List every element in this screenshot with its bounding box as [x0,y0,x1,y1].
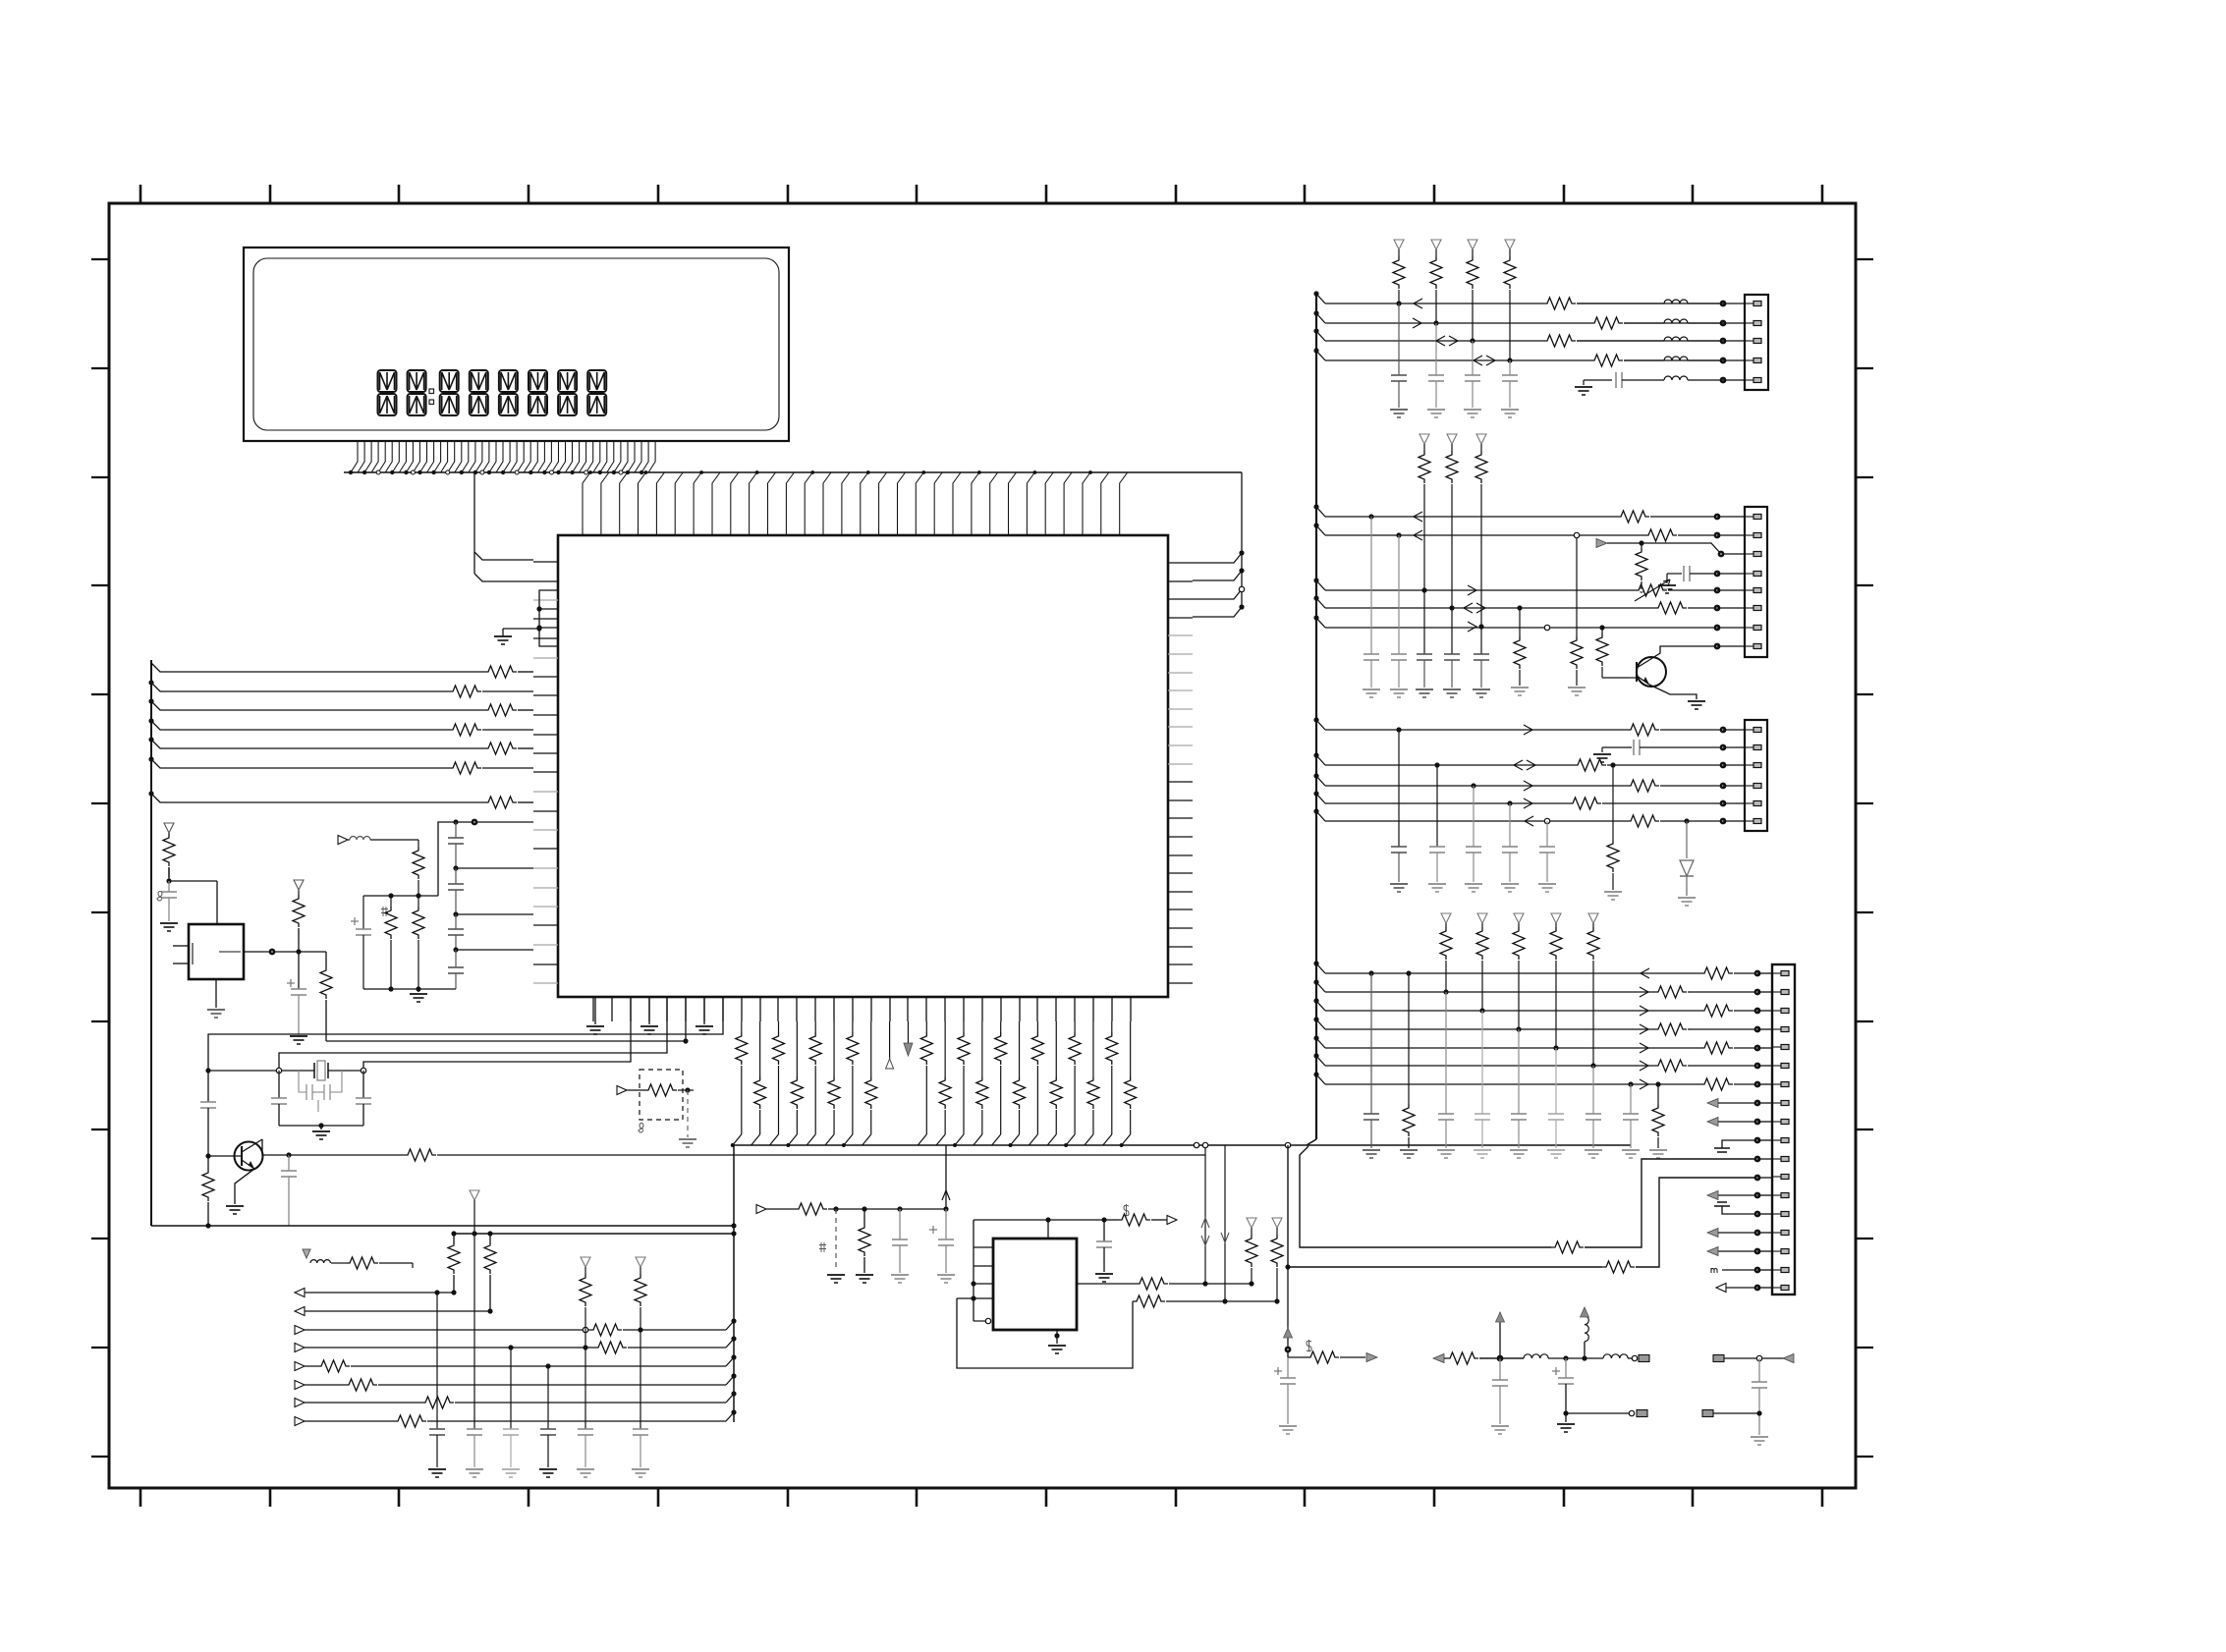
nested wire L1 [208,997,723,1054]
harness wire row 5 [151,740,484,748]
filter capacitor C63 [1449,605,1454,610]
left vertical bus [150,660,152,1226]
J4 input arrow pin16 [1707,1247,1718,1256]
ground G56 [1585,1149,1602,1151]
transistor Q1 [235,1142,263,1171]
chevrons g3r3 [1514,760,1523,770]
wire to test plug B [1566,1412,1635,1414]
ground G20 [1390,409,1408,411]
LCD 14-segment digit 5 [499,370,518,415]
series resistor R95 [1654,1060,1687,1072]
U3 output wire 1 [1077,1283,1136,1285]
connector J4 signal wire 2 [1316,982,1325,992]
wire IC right pin row to bus trunk 2 [1193,571,1242,580]
pad junction 3 [1720,338,1727,345]
resistor R53 with net flag [1124,1204,1129,1216]
chevron g4r3 [1640,1006,1648,1016]
ground G12 [891,1274,909,1276]
U3 top pin wire [1047,1220,1049,1239]
U2 output wire [244,951,326,953]
ferrite bead FB2 [1664,319,1688,323]
series resistor R91 [1654,986,1687,998]
series resistor R70 [1617,511,1649,523]
input flag RC cluster [756,1205,766,1214]
J2 pin 3 [1745,553,1753,555]
pullup resistor R76 [1447,434,1457,444]
series resistor R93 [1654,1023,1687,1035]
connector J3 [1745,720,1767,831]
direction chevron g1r2 [1413,318,1421,328]
series resistor R82 [1574,759,1606,771]
ferrite bead FB1 [1664,300,1688,303]
filter capacitor C50 [1398,303,1400,375]
connector J1 [1745,295,1768,390]
vertical inductor FB11 [1582,1355,1586,1360]
J2 pin 2 [1745,534,1753,536]
Q1 emitter to ground [235,1169,254,1204]
J1 pin 2 [1745,322,1753,324]
U1 left pin stubs [533,562,558,983]
connector J2 wire row1 [1316,507,1325,517]
inductor FB10 [1479,1357,1524,1359]
J4 pin11 long feed wire [1300,1146,1551,1247]
resistor R46 bank column 7 [852,1021,854,1032]
ground G55 [1547,1149,1565,1151]
ferrite bead FB3 [1664,337,1688,341]
base resistor R80 [1599,625,1604,630]
input flag row2 [295,1307,305,1316]
capacitor C24 [207,1054,209,1102]
pullup resistor R133 [1551,913,1561,923]
J4 pin10 ground [1722,1140,1757,1148]
ground G42 [1465,883,1482,885]
J2 pin 5 [1745,589,1753,591]
dashed option resistor R50 [640,1070,683,1120]
capacitor C23 [362,1071,364,1098]
resistor pair R36 [453,1234,455,1241]
capacitor C20 [168,881,170,892]
filter capacitor C82 [1445,992,1447,1114]
ground G6 under U1 [703,997,705,1024]
ground G41 [1428,883,1446,885]
resistor R24 [404,1149,436,1161]
resistor R419 bank column 20 [1092,1021,1094,1076]
filter capacitor C52 [1472,341,1474,375]
resistor R22 [325,952,327,966]
nested wire L4 [363,997,631,1071]
capacitor C40 [897,1206,902,1211]
ladder tap 3 [453,947,458,952]
LCD pin wires to segment bus [351,441,655,472]
nested wire L2 [685,997,687,1041]
resistor R40 bank column 1 [741,1021,743,1032]
LCD 14-segment digit 7 [558,370,577,415]
resistor R47 bank column 8 [870,1021,872,1076]
resistor R51 [795,1203,827,1215]
J4 pin 6 [1772,1065,1781,1067]
segment bus wire [344,471,1242,473]
resistor R35 row8 [394,1420,427,1423]
filter capacitor C74 [1546,821,1548,847]
resistor R30 row3 [589,1329,623,1332]
power flag and filter [303,1249,310,1258]
ground G11 [856,1274,873,1276]
ground G13 [937,1274,955,1276]
U3 left pin rail [973,1220,974,1321]
connector J2 wire row2 [1316,525,1325,535]
resistor pair R37 [489,1234,491,1241]
electrolytic C2A [362,896,364,929]
J4 pin 10 [1772,1139,1781,1141]
filter capacitor C83 [1481,1011,1483,1114]
capacitor C42 [1103,1220,1105,1241]
J4 pin 2 [1772,991,1781,993]
wire to plug TP4 [1713,1412,1759,1414]
direction chevrons g1r4 [1474,356,1482,365]
ground G4 under U1 [594,997,596,1024]
chevrons g2r6 [1464,603,1473,613]
ground G22 [1464,409,1481,411]
ground G32 [1416,688,1433,690]
chevron g2r7 [1468,622,1476,632]
pullup resistor R132 [1514,913,1524,923]
transistor Q2 [1637,657,1666,687]
wire IC right pin row to bus trunk 3 [1193,589,1242,599]
resistor R21 [296,949,301,954]
pullup resistor R131 [1477,913,1487,923]
J4 pin 15 [1772,1232,1781,1234]
pullup R56 [1247,1218,1256,1228]
capacitor ladder C29 [455,950,457,967]
resistor R417 bank column 18 [1055,1021,1057,1076]
bleed resistor R101 [1408,973,1410,1104]
filter capacitor C87 [1630,1084,1632,1114]
power net vertical A [1287,1267,1289,1357]
ground G16 [417,989,419,992]
inductor FB12 [1603,1354,1628,1358]
pad junction 2 [1720,320,1727,327]
U1 left pins tie bracket [539,590,558,646]
series resistor R71 [1644,529,1677,541]
ground G33 [1443,688,1461,690]
connector J4 signal wire 4 [1316,1019,1325,1029]
J2 pin 7 [1745,627,1753,629]
Q2 emitter ground [1649,685,1697,699]
pullup resistor R75 [1419,434,1429,444]
net flag J2 pin3 [1596,539,1607,548]
LCD display module DS1 outline [244,248,789,441]
J4 input arrow pin15 [1707,1229,1718,1238]
resistor R416 bank column 17 [1036,1021,1038,1032]
wire LCD COM drop to IC left [474,472,533,560]
J1 pin 1 [1745,303,1753,304]
power column B1 [1497,1355,1504,1362]
resistor R413 bank column 14 [981,1021,983,1076]
LCD colon [429,389,434,394]
net arrow B [1433,1354,1444,1363]
resistor R11 harness row 2 [449,686,481,697]
LCD glass inner outline [253,258,779,430]
bleed resistor R108 [1657,1084,1659,1104]
connector J3 wire row1 [1316,720,1325,730]
U2 left pin stubs [173,945,189,947]
pullup resistor R61 [1431,240,1441,249]
crystal X1 [313,1063,315,1078]
ground G45 [1604,891,1622,893]
input flag row7 [295,1399,305,1407]
resistor R25 [417,840,419,847]
series resistor R66 [1543,340,1577,343]
ground G51 [1400,1149,1418,1151]
filter capacitor C84 [1518,1029,1520,1114]
harness wire row 7 [151,794,484,802]
direction chevrons g1r3 [1436,336,1445,346]
bus taps down to IC top pins [583,472,1128,535]
resistor R421 bank column 22 [1130,1021,1132,1076]
resistor R34 row7 [421,1402,455,1404]
LCD 14-segment digit 6 [529,370,547,415]
no-connect stub with open triangle [889,1021,891,1059]
capacitor C22 [278,1071,280,1098]
pullup resistor R130 [1441,913,1451,923]
Q2 collector wire [1649,646,1717,660]
LCD 14-segment digit 2 [408,370,426,415]
return bus wire lower [151,1225,734,1227]
J4 input arrow pin8 [1707,1099,1718,1108]
U3 feedback loop wire [957,1298,1133,1368]
column cap C30 [436,1293,438,1429]
resistor R31 row4 [594,1347,628,1349]
J2 pin 8 [1745,645,1753,647]
capacitor ladder C28 [455,914,457,929]
chevron g3r4 [1524,781,1532,791]
J3 pin 6 [1745,820,1753,822]
resistor R41 bank column 2 [759,1021,761,1076]
ground G34 [1473,688,1490,690]
pullup R57 [1272,1218,1282,1228]
chevron g4r7 [1640,1079,1648,1089]
J2 pin 6 [1745,607,1753,609]
series resistor R92 [1700,1005,1733,1017]
diode D1 [1686,821,1688,858]
J2 pin 4 [1745,573,1753,575]
bleed resistor R79 [1576,535,1578,636]
ladder tap 2 [453,911,458,916]
ground G57 [1622,1149,1640,1151]
segment bus junction dots [349,470,644,474]
resistor R54 [1136,1278,1168,1290]
resistor R52 [862,1206,866,1211]
wire plug to arrow C [1724,1357,1794,1359]
connector J3 wire row5 [1316,794,1325,803]
wire cap commons [279,1125,363,1127]
ferrite bead FB20 [348,839,350,841]
input flag row1 [295,1289,305,1297]
wire IC right pin row to bus trunk 1 [1193,553,1242,563]
connector J3 wire row6 [1316,811,1325,821]
J1 pin 3 [1745,340,1753,342]
connector J4 signal wire 7 [1316,1074,1325,1084]
resistor R14 harness row 5 [484,743,517,754]
ground G50 [1363,1149,1380,1151]
J4 pin 18 [1772,1287,1781,1289]
series resistor R85 [1627,815,1659,827]
harness wire row 1 [151,663,484,672]
J4 pin 1 [1772,972,1781,974]
resistor R412 bank column 13 [963,1021,965,1032]
capacitor C55 [1683,566,1685,581]
wire analog node [363,895,438,897]
harness wire row 4 [151,721,449,730]
input flag row8 [295,1417,305,1426]
input flag row6 [295,1381,305,1390]
chevron g4r2 [1640,987,1648,997]
ground G62 [1557,1423,1575,1425]
chevron g2r5 [1468,585,1476,595]
series resistor R65 [1590,322,1624,325]
resistor R27 [417,896,419,907]
ground G30 [1363,688,1380,690]
J1 pin 4 [1745,359,1753,361]
pad junction 4 [1720,358,1727,364]
power rail y1256 [454,1233,734,1235]
ferrite bead FB4 [1664,357,1688,360]
ground G23 [1501,409,1519,411]
ground G37 [1688,700,1705,702]
ground G54 [1510,1149,1528,1151]
series resistor R90 [1700,967,1733,979]
resistor R45 bank column 6 [833,1021,835,1076]
filter capacitor C62 [1421,587,1426,592]
electrolytic C90 [1274,1370,1282,1372]
ground G61 [1491,1425,1509,1427]
ground G24 [1575,386,1592,388]
J1 pin 5 [1745,379,1753,381]
chevron g4r5 [1640,1043,1648,1053]
electrolytic C91 [1563,1355,1568,1360]
capacitor ladder C27 [455,868,457,884]
ground G5 under U1 [648,997,650,1024]
plug TP2 [1639,1355,1649,1362]
J4 pin 9 [1772,1121,1781,1123]
J4 pin 11 [1772,1158,1781,1160]
dashed stub [833,1206,838,1211]
net arrow A [1366,1353,1377,1362]
capacitor C92 [1758,1358,1760,1382]
J4 pin 12 [1772,1176,1781,1178]
resistor R411 bank column 12 [944,1021,946,1076]
plug TP4 [1702,1410,1713,1417]
U3 left pin stubs [974,1246,993,1248]
wire vertical feed 1 [1204,1145,1206,1284]
resistor R13 harness row 4 [449,724,481,736]
J3 pin 5 [1745,802,1753,804]
resistor R20 pullup [168,833,170,834]
right bus trunk [1315,295,1317,1139]
series resistor R110 [1551,1241,1584,1253]
wire crystal net [208,1070,314,1072]
connector J4 signal wire 3 [1316,1001,1325,1011]
filter capacitor C60 [1368,514,1373,519]
pullup resistor R134 [1588,913,1598,923]
connector J1 signal wire 2 [1316,313,1325,323]
ground G3 [290,1035,307,1037]
main horizontal rail [734,1144,1631,1146]
connector J4 signal wire 6 [1316,1056,1325,1066]
resistor R33 row6 [345,1384,378,1387]
resistor R10 harness row 1 [484,666,517,678]
ferrite bead FB5 [1664,376,1688,380]
pullup resistor R77 [1476,434,1486,444]
ground G7 [320,1126,322,1129]
U1 bottom pin stubs [593,997,1131,1021]
resistor R44 bank column 5 [814,1021,816,1032]
J4 pin 8 [1772,1102,1781,1104]
LCD 14-segment digit 1 [378,370,397,415]
bleed resistor R78 [1519,608,1521,636]
connector J3 wire row4 [1316,776,1325,786]
connector J2 wire row5 [1316,580,1325,590]
border frame [109,203,1856,1488]
U3 supply rail [974,1219,1104,1221]
harness wire row 2 [151,683,449,691]
resistor R23 [205,1153,210,1158]
ground G31 [1390,688,1408,690]
ground G52 [1437,1149,1455,1151]
pullup resistor R60 [1394,240,1404,249]
ground G63 [1751,1436,1768,1438]
bus right elbow to IC right pins [1241,472,1243,608]
series resistor R94 [1700,1042,1733,1054]
J2 pin 1 [1745,516,1753,518]
ground G2 [160,922,178,924]
series resistor R84 [1569,798,1601,809]
chevron g2r1 [1414,512,1422,522]
ladder tap 1 [453,865,458,870]
input flag analog row [338,836,348,845]
filter capacitor C85 [1555,1048,1557,1114]
ground G9 [679,1138,696,1140]
J4 pin 16 [1772,1250,1781,1252]
resistor R120 [1288,1356,1307,1358]
connector J1 signal wire 4 [1316,351,1325,360]
bleed resistor R86 [1612,765,1614,840]
ground G21 [1427,409,1445,411]
connector J3 wire row3 [1316,755,1325,765]
ground G58 [1649,1149,1667,1151]
connector J2 wire row6 [1316,598,1325,608]
ground G35 [1511,687,1529,688]
nested wire L3 [279,997,667,1071]
column with power arrow C31 [470,1190,479,1200]
chevron g4r4 [1640,1024,1648,1034]
ground G25 [1658,584,1676,586]
chevron g3r6 [1525,816,1533,826]
reset supervisor U2 [189,924,244,979]
ground G53 [1474,1149,1491,1151]
resistor R410 bank column 11 [925,1021,927,1032]
ground G43 [1501,883,1519,885]
electrolytic C21 [298,952,300,989]
plug TP3 [1713,1355,1724,1362]
resistor R55 [1133,1295,1165,1307]
connector J4 signal wire 1 [1316,964,1325,973]
pad junction 1 [1720,301,1727,307]
wire to reset box [166,878,171,883]
chevron g3r5 [1524,798,1532,808]
J4 pin 13 [1772,1194,1781,1196]
series resistor R74 [1654,602,1687,614]
